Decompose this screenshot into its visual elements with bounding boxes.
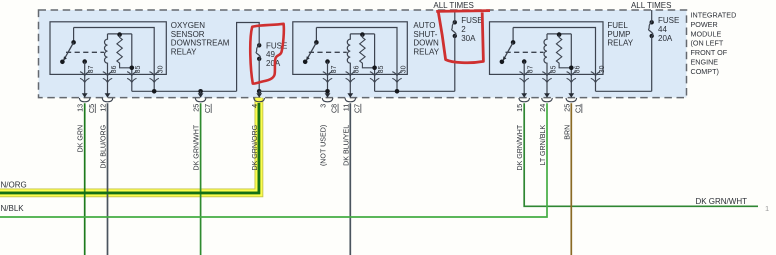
svg-text:1: 1 <box>765 204 769 213</box>
svg-text:C7: C7 <box>203 104 212 113</box>
svg-text:(ON LEFT: (ON LEFT <box>691 39 724 48</box>
svg-text:2: 2 <box>461 25 466 34</box>
svg-text:C7: C7 <box>353 104 362 113</box>
svg-text:30: 30 <box>599 65 606 73</box>
svg-text:DOWN: DOWN <box>413 39 439 48</box>
svg-text:INTEGRATED: INTEGRATED <box>691 11 737 20</box>
svg-text:DK GRN/WHT: DK GRN/WHT <box>516 124 524 170</box>
svg-text:20A: 20A <box>266 59 281 68</box>
svg-text:DK GRN/WHT: DK GRN/WHT <box>193 124 201 170</box>
svg-text:ALL TIMES: ALL TIMES <box>433 1 473 10</box>
svg-text:FUSE: FUSE <box>461 16 482 25</box>
svg-text:ALL TIMES: ALL TIMES <box>631 1 671 10</box>
svg-text:AUTO: AUTO <box>413 21 435 30</box>
svg-text:13: 13 <box>76 104 85 112</box>
svg-text:DOWNSTREAM: DOWNSTREAM <box>171 39 230 48</box>
svg-text:N/ORG: N/ORG <box>1 180 27 189</box>
svg-text:30: 30 <box>400 65 407 73</box>
svg-text:C8: C8 <box>330 104 339 113</box>
svg-text:20A: 20A <box>658 34 673 43</box>
svg-text:N/BLK: N/BLK <box>1 204 25 213</box>
svg-text:FUSE: FUSE <box>658 16 679 25</box>
svg-text:12: 12 <box>99 104 108 112</box>
svg-text:DK BLU/ORG: DK BLU/ORG <box>100 125 108 169</box>
svg-text:ENGINE: ENGINE <box>691 58 719 67</box>
svg-text:86: 86 <box>575 65 582 73</box>
svg-text:RELAY: RELAY <box>171 47 197 56</box>
svg-text:85: 85 <box>378 65 385 73</box>
svg-text:86: 86 <box>354 65 361 73</box>
svg-text:PUMP: PUMP <box>607 30 630 39</box>
svg-text:SENSOR: SENSOR <box>171 30 205 39</box>
svg-text:OXYGEN: OXYGEN <box>171 21 205 30</box>
svg-text:DK GRN: DK GRN <box>77 125 85 153</box>
svg-text:30A: 30A <box>461 34 476 43</box>
svg-text:85: 85 <box>550 65 557 73</box>
svg-text:30: 30 <box>158 65 165 73</box>
svg-text:87: 87 <box>528 65 535 73</box>
svg-text:24: 24 <box>538 104 547 112</box>
svg-text:11: 11 <box>341 104 350 111</box>
svg-text:49: 49 <box>266 50 275 59</box>
svg-text:FRONT OF: FRONT OF <box>691 48 728 57</box>
svg-text:RELAY: RELAY <box>607 39 633 48</box>
svg-text:44: 44 <box>658 25 667 34</box>
svg-text:FUEL: FUEL <box>607 21 628 30</box>
svg-text:87: 87 <box>88 65 95 73</box>
svg-text:3: 3 <box>319 104 328 108</box>
svg-text:C5: C5 <box>87 104 96 113</box>
svg-text:COMPT): COMPT) <box>691 67 719 76</box>
svg-text:SHUT-: SHUT- <box>413 30 437 39</box>
svg-text:LT GRN/BLK: LT GRN/BLK <box>539 125 547 166</box>
svg-text:RELAY: RELAY <box>413 47 439 56</box>
svg-text:DK BLU/YEL: DK BLU/YEL <box>342 125 350 166</box>
svg-text:C1: C1 <box>574 104 583 113</box>
svg-text:(NOT USED): (NOT USED) <box>320 125 328 166</box>
svg-text:BRN: BRN <box>563 125 571 140</box>
svg-text:15: 15 <box>515 104 524 112</box>
svg-text:86: 86 <box>111 65 118 73</box>
svg-text:POWER: POWER <box>691 20 718 29</box>
svg-text:DK GRN/WHT: DK GRN/WHT <box>695 197 747 206</box>
svg-text:25: 25 <box>192 104 201 112</box>
svg-text:25: 25 <box>562 104 571 112</box>
svg-text:87: 87 <box>331 65 338 73</box>
svg-text:MODULE: MODULE <box>691 29 722 38</box>
svg-text:85: 85 <box>135 65 142 73</box>
